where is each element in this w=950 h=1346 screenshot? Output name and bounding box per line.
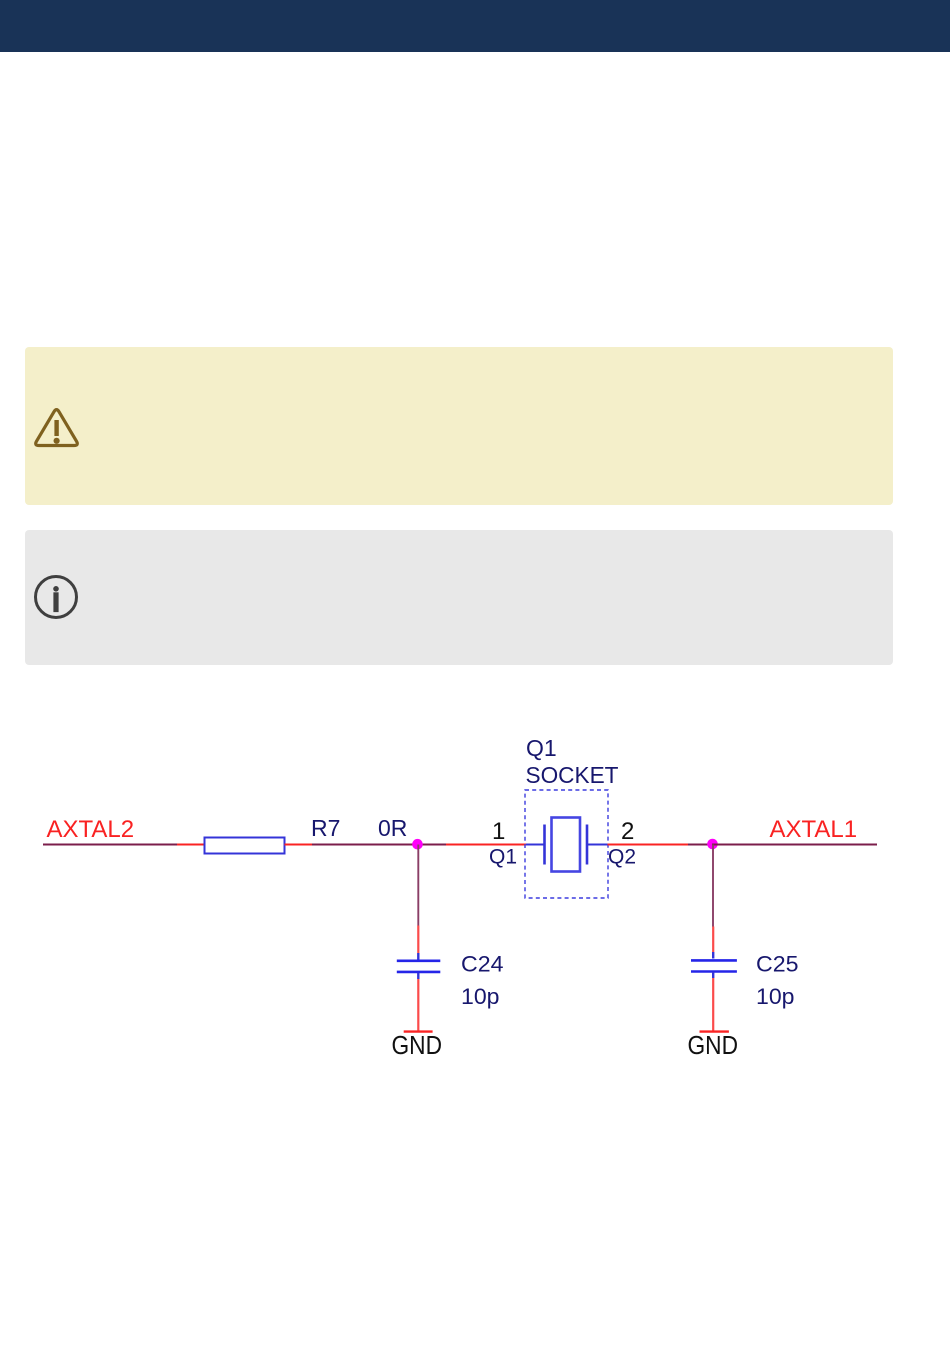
capacitor C24 bottom plate <box>397 971 441 974</box>
capacitor C25 top stub <box>712 952 714 959</box>
svg-text:Q1: Q1 <box>489 846 517 869</box>
wire node 2 down to C25 <box>712 845 714 927</box>
svg-text:C25: C25 <box>756 952 799 977</box>
svg-text:Q2: Q2 <box>608 846 636 869</box>
wire node 1 down to C24 <box>417 845 419 926</box>
wire node 2 to AXTAL1 net <box>712 844 877 846</box>
crystal Q1 right electrode <box>586 825 589 865</box>
resistor R7 pin 2 lead <box>285 844 313 846</box>
capacitor C24 bottom stub <box>417 973 419 979</box>
info icon <box>30 571 82 623</box>
wire crystal pin 2 to node 2 <box>688 844 712 846</box>
crystal Q1 left electrode <box>543 825 546 865</box>
svg-text:Q1: Q1 <box>526 735 557 761</box>
svg-text:0R: 0R <box>378 815 407 841</box>
capacitor C24 top stub <box>417 953 419 960</box>
capacitor C25 bottom lead <box>712 978 714 1031</box>
svg-text:10p: 10p <box>461 984 500 1009</box>
svg-text:AXTAL1: AXTAL1 <box>770 816 858 843</box>
resistor R7 body <box>205 838 285 854</box>
ground symbol GND (left) <box>404 1030 433 1032</box>
capacitor C24 top plate <box>397 959 441 962</box>
wire AXTAL2 net to R7 pin 1 <box>43 844 177 846</box>
warning admonition box <box>25 347 893 505</box>
capacitor C24 bottom lead <box>417 979 419 1031</box>
svg-text:10p: 10p <box>756 984 795 1009</box>
wire R7 pin 2 to node 1 <box>312 844 418 846</box>
svg-text:AXTAL2: AXTAL2 <box>47 816 135 843</box>
circuit schematic <box>0 700 950 1100</box>
info admonition box <box>25 530 893 665</box>
capacitor C25 bottom stub <box>712 972 714 978</box>
svg-text:2: 2 <box>621 818 634 845</box>
svg-text:C24: C24 <box>461 952 504 977</box>
svg-text:GND: GND <box>392 1030 443 1060</box>
capacitor C25 top plate <box>691 959 737 962</box>
crystal socket boundary (dashed) <box>525 790 608 898</box>
junction node 2 <box>707 839 718 850</box>
junction node 1 <box>412 839 423 850</box>
crystal Q1 right lead <box>587 844 608 846</box>
wire node 1 to crystal Q1 pin 1 <box>418 844 446 846</box>
crystal Q1 pin 2 lead <box>608 844 689 846</box>
svg-text:R7: R7 <box>311 815 340 841</box>
svg-text:1: 1 <box>492 818 505 845</box>
crystal Q1 left lead <box>526 844 545 846</box>
top navigation bar <box>0 0 950 52</box>
capacitor C25 bottom plate <box>691 970 737 973</box>
svg-text:SOCKET: SOCKET <box>526 762 619 788</box>
ground symbol GND (right) <box>700 1030 729 1032</box>
capacitor C25 top lead <box>712 927 714 953</box>
crystal Q1 body <box>552 818 581 872</box>
capacitor C24 top lead <box>417 926 419 954</box>
warning icon <box>28 401 84 453</box>
resistor R7 pin 1 lead <box>177 844 205 846</box>
svg-text:GND: GND <box>688 1030 739 1060</box>
crystal Q1 pin 1 lead <box>446 844 526 846</box>
